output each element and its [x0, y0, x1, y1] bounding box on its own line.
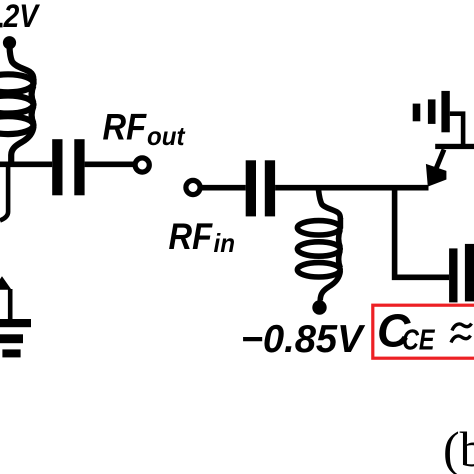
svg-text:out: out	[147, 121, 186, 151]
supply node dot	[3, 36, 16, 49]
wire: output cap to RF_out terminal	[85, 162, 134, 168]
capacitor bank at base (cropped): three plates	[413, 91, 450, 132]
label C_CE ~	[377, 305, 472, 357]
wire: input cap to emitter of Q2	[275, 185, 428, 191]
wire: collector node horizontal to output cap	[0, 162, 52, 168]
wire: emitter to ground	[8, 289, 13, 320]
ground	[0, 319, 31, 357]
svg-text:RF: RF	[103, 107, 148, 148]
transistor Q2 emitter arrow	[426, 164, 447, 187]
label 1.2V (cropped, shows "2V" and period remnant)	[0, 0, 40, 34]
wire: base hook from cap bank	[450, 114, 463, 144]
svg-text:CE: CE	[402, 324, 435, 356]
transistor Q1 emitter arrow	[0, 276, 12, 290]
label RF_out	[103, 107, 186, 151]
capacitor C_in	[246, 160, 275, 216]
wire: emitter branch down to C_CE	[395, 190, 450, 277]
capacitor C_CE	[449, 244, 474, 303]
bias node dot	[312, 300, 326, 314]
transistor Q1 (left, cropped at edge): collector wire	[0, 166, 8, 221]
capacitor C_out	[52, 139, 84, 195]
svg-text:−0.85V: −0.85V	[241, 318, 366, 361]
RF_out terminal (open circle)	[135, 158, 149, 172]
inductor L1 (collector load, left, partially cropped)	[0, 46, 34, 166]
svg-text:in: in	[214, 228, 236, 258]
red annotation box	[373, 305, 474, 358]
svg-text:(b: (b	[443, 421, 474, 474]
svg-text:RF: RF	[169, 216, 214, 257]
transistor Q2 base bar	[435, 144, 474, 149]
wire: RF_in to input cap	[200, 185, 246, 191]
label RF_in	[169, 216, 236, 258]
RF_in terminal (open circle)	[186, 180, 200, 194]
transistor Q2 emitter line	[431, 149, 444, 181]
inductor L2 (emitter bias feed)	[297, 190, 340, 301]
svg-text:2V: 2V	[3, 0, 41, 34]
